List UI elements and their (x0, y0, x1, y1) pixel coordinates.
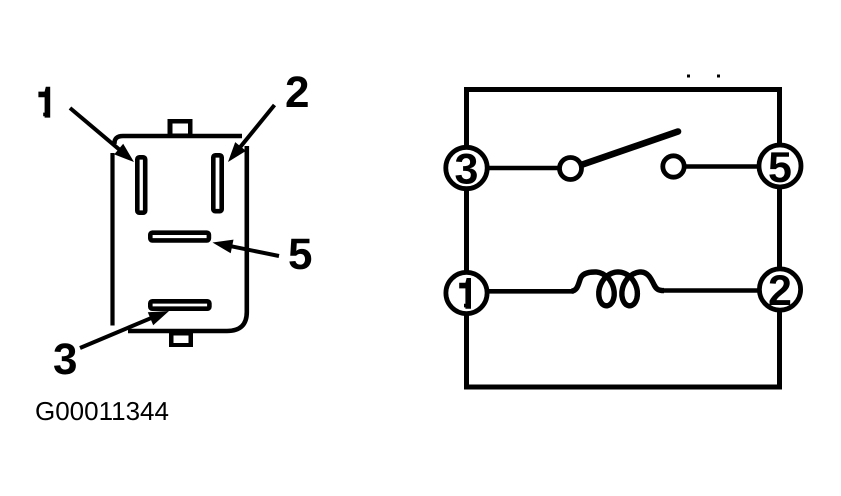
svg-text:5: 5 (288, 230, 312, 279)
svg-text:G00011344: G00011344 (35, 396, 169, 426)
svg-text:3: 3 (455, 145, 479, 193)
svg-text:5: 5 (768, 144, 792, 192)
svg-text:3: 3 (53, 335, 77, 384)
svg-text:2: 2 (285, 68, 309, 117)
svg-text:2: 2 (768, 267, 792, 315)
